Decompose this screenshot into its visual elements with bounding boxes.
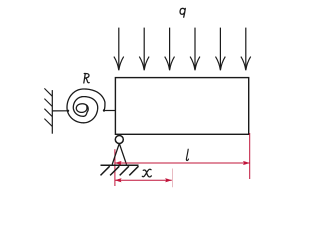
label x (142, 169, 151, 177)
red extension line left (at beam left end) (114, 149, 116, 186)
load arrow 5 (216, 28, 226, 71)
load arrow 1 (114, 28, 124, 71)
wall (fixed support, left) (44, 88, 52, 133)
load arrow 2 (139, 28, 149, 71)
junction dot right (103, 109, 105, 111)
l left arrowhead (115, 161, 122, 165)
beam (rectangle) (115, 78, 248, 135)
pin support: ground line (101, 164, 139, 166)
light tick at x dimension end (171, 169, 173, 188)
junction dot left (67, 110, 69, 112)
load arrow 4 (190, 28, 200, 71)
label q (180, 8, 185, 17)
beam-on-elastic-support schematic (0, 0, 300, 195)
l right arrowhead (243, 161, 250, 165)
x right arrowhead (165, 178, 172, 182)
spring-to-beam link (104, 110, 115, 112)
red extension line right (at beam right end) (249, 133, 251, 179)
label l (186, 149, 188, 160)
pin support: ground hatching (101, 166, 139, 175)
x left arrowhead (115, 178, 122, 182)
dimension line x (115, 179, 172, 181)
dimension line l (115, 162, 250, 164)
pin support: triangle (112, 143, 126, 164)
label R (84, 73, 89, 83)
pin support: hinge circle (115, 136, 123, 144)
load arrow 6 (241, 28, 251, 71)
wall-to-spring link (52, 110, 68, 112)
torsion spring R (spiral) (67, 89, 105, 123)
load arrow 3 (165, 28, 175, 71)
